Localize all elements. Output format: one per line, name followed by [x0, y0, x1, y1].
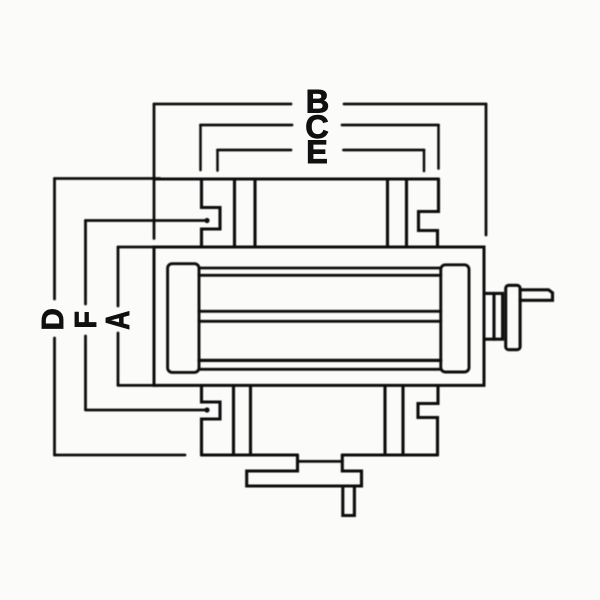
- dimension bracket D vertical lower segment: [53, 338, 56, 455]
- handle hub: [506, 285, 520, 349]
- dimension bracket E horizontal right segment: [344, 149, 425, 152]
- base right inner vertical 1: [383, 385, 386, 455]
- saddle right inner vertical 1: [386, 179, 389, 246]
- dimension bracket A bottom tick: [118, 384, 157, 387]
- svg-text:D: D: [35, 308, 70, 330]
- body outline: [154, 247, 484, 385]
- base bottom edge with step: [202, 453, 438, 456]
- saddle left inner vertical 1: [233, 179, 236, 246]
- saddle top edge: [154, 177, 439, 180]
- table lower rail line: [199, 359, 441, 362]
- saddle right inner vertical 2: [405, 179, 408, 246]
- saddle left inner vertical 2: [253, 179, 256, 246]
- dimension bracket D top tick: [55, 177, 161, 180]
- dimension bracket C horizontal left segment: [201, 124, 293, 127]
- dimension bracket B left vertical (also saddle left edge): [153, 104, 156, 239]
- dimension bracket F bottom leader dot: [204, 407, 209, 412]
- table bottom rail line: [199, 368, 441, 371]
- dimension bracket F vertical upper segment: [84, 221, 87, 305]
- dimension bracket E left vertical: [216, 150, 219, 171]
- dimension bracket D bottom tick: [55, 454, 186, 457]
- table left end cap: [168, 264, 199, 373]
- dimension bracket B horizontal right segment: [344, 103, 486, 106]
- base right inner vertical 2: [401, 385, 404, 455]
- dimension bracket B right vertical: [485, 104, 488, 235]
- dimension bracket F top leader line: [86, 219, 207, 222]
- dimension bracket E horizontal left segment: [218, 149, 292, 152]
- table middle rail line upper: [199, 310, 441, 313]
- leadscrew shaft: [343, 486, 355, 516]
- svg-text:F: F: [69, 311, 103, 328]
- handle spacer divider: [492, 293, 495, 339]
- dimension bracket C horizontal right segment: [342, 124, 439, 127]
- dimension bracket A vertical upper segment: [117, 247, 120, 306]
- dimension bracket A top tick: [118, 246, 157, 249]
- base right T-slot notch: [418, 385, 438, 455]
- dimension bracket C left vertical: [199, 125, 202, 170]
- dimension bracket A vertical lower segment: [117, 333, 120, 385]
- dimension bracket D vertical upper segment: [53, 179, 56, 300]
- svg-text:A: A: [100, 311, 136, 330]
- base left inner vertical 1: [232, 385, 235, 455]
- base left inner vertical 2: [249, 385, 252, 455]
- dimension bracket F top leader dot: [204, 218, 209, 223]
- handle spacer plates: [485, 293, 503, 339]
- dimension bracket F bottom leader line: [86, 409, 207, 412]
- leadscrew bracket flange: [247, 455, 362, 486]
- table top rail line: [199, 267, 441, 270]
- dimension bracket B horizontal left segment: [154, 103, 291, 106]
- saddle right T-slot notch: [419, 179, 439, 246]
- dimension bracket E right vertical: [423, 150, 426, 171]
- table upper rail line: [199, 274, 441, 277]
- table right end cap: [441, 265, 469, 372]
- saddle left T-slot notch: [202, 179, 221, 246]
- svg-text:E: E: [306, 134, 328, 170]
- base left T-slot notch: [202, 385, 221, 455]
- dimension bracket F vertical lower segment: [84, 336, 87, 410]
- table middle rail line lower: [199, 320, 441, 323]
- handle shaft: [520, 290, 553, 301]
- dimension bracket C right vertical: [437, 125, 440, 169]
